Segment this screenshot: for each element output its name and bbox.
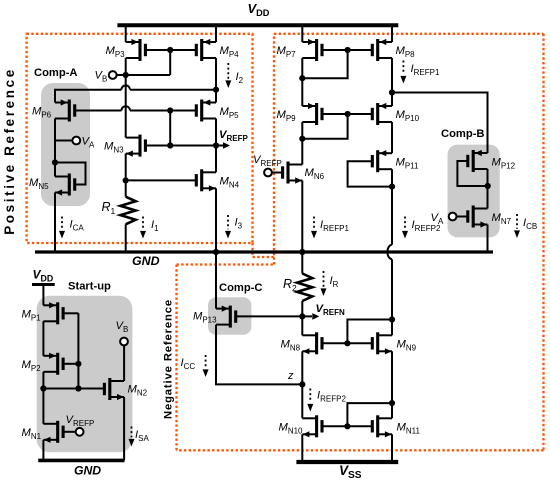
svg-text:Positive Reference: Positive Reference [2,67,17,235]
wire MN5 gate loop to drain node [55,163,86,185]
node VREFP [213,142,219,148]
wire MP5 drain down to VREFP node [215,119,217,146]
wire MP2 drain down to node [42,372,44,389]
svg-text:IREFP1: IREFP1 [320,219,349,233]
node gate line to MN3 [167,107,173,113]
transistor MP5 [196,99,216,121]
wire MN10 source down to VSS [301,434,303,462]
terminal VREFP start-up [76,428,84,436]
arrow VREFN output [302,313,319,320]
node z [299,381,305,387]
current arrow ICC [203,355,209,377]
wire MP9 gate to MP10 gate [322,113,372,115]
node MN5 gate tie [52,159,58,165]
node start-up mid right [75,385,81,391]
svg-text:MP9: MP9 [277,109,297,123]
node MP13 source at GND [213,249,219,255]
svg-text:MN4: MN4 [220,176,240,190]
transistor MP9 [302,103,322,125]
wire MP7 source to VDD [301,25,303,42]
wire node to MN2 gate [43,388,104,390]
wire MN5 drain up [54,163,56,177]
GND bar start-up [38,459,124,463]
wire MP13 drain down to z node [216,325,302,385]
wire MP3 gate to MP4 gate [146,49,197,51]
current arrow ISA [129,427,135,447]
wire MP8 source to VDD [391,25,393,42]
transistor MP12 [468,150,488,172]
wire MP2 gate tap [63,363,78,365]
transistor MN4 [196,169,216,191]
wire MP10 drain down to MP11 source [391,122,393,153]
svg-text:MN10: MN10 [279,422,304,436]
node MN10-MN11 gate tie [344,423,350,429]
node MP9 gate tie [345,111,351,117]
transistor MP11 [372,150,392,172]
VDD rail [117,23,398,27]
right reference region box [177,34,544,451]
wire MP5 source up [215,90,217,103]
transistor MN5 [55,174,75,196]
terminal VA [72,137,80,145]
node MN9 drain tie [389,316,395,322]
Comp-A shaded box [41,83,90,206]
current arrow ICA [59,217,65,239]
wire MN3 drain up to VB node [125,75,127,138]
wire MP8 drain down to IREFP1 node [391,58,393,93]
wire MP9 drain down [301,122,303,139]
svg-text:VSS: VSS [339,463,362,481]
node gate MP3-MP4 [167,47,173,53]
current arrow ICB [514,214,520,238]
svg-text:Start-up: Start-up [68,281,111,293]
wire node down to MN1 drain [42,389,44,424]
transistor MP13 [216,306,236,328]
positive reference region box [27,34,253,243]
node MP9 drain [299,136,305,142]
wire MP7 gate to MP8 gate [322,49,372,51]
node MP7 drain [299,75,305,81]
wire MN8 source down to z node [301,351,303,384]
svg-text:VDD: VDD [33,268,54,284]
wire MP6 gate to MP5 gate (with hop) [75,106,196,110]
wire MP11 gate diode tie [348,161,392,186]
wire MP6 drain down [54,119,56,163]
svg-text:I2: I2 [236,71,244,85]
node MP8 drain [389,89,395,95]
terminal VB [109,71,117,79]
wire MN9 drain up [391,320,393,336]
transistor MP1 [43,302,63,324]
resistor R1 [120,180,135,252]
svg-text:VREFP: VREFP [253,154,282,168]
wire MP4 source to VDD [215,25,217,42]
wire MP9 source up [301,78,303,106]
wire MP12 gate diode loop [457,161,487,186]
wire MN6 source down to GND line [301,181,303,253]
wire MN7 source down to GND line [487,225,489,253]
wire VB node line [117,74,171,76]
svg-text:MP11: MP11 [396,157,420,171]
svg-text:MP10: MP10 [396,109,420,123]
svg-text:MN8: MN8 [281,339,301,353]
Start-up shaded box [37,296,133,453]
svg-text:MP7: MP7 [277,45,297,59]
wire MP11 drain branch down with hop over GND [387,187,392,320]
svg-text:I3: I3 [235,217,243,231]
node MP7 gate tie [345,47,351,53]
svg-text:VB: VB [95,70,108,84]
svg-text:MN3: MN3 [104,141,124,155]
node MN3 gate line [167,142,173,148]
wire MN2 source down to GND bar [123,397,125,460]
transistor MP8 [372,39,392,61]
wire MN10 drain up to z node [301,384,303,418]
VDD bar start-up [32,283,55,286]
svg-text:IR: IR [330,275,339,289]
svg-text:ISA: ISA [135,429,149,443]
current arrow IREFP2 mid [402,217,408,239]
wire MP12 drain down [487,169,489,186]
wire MN5 source down to GND [54,193,56,253]
wire VREFP terminal to MN6 gate [272,172,283,174]
current arrow IREFP1 mid [311,217,317,239]
wire MN1 source down to GND bar [42,440,44,461]
transistor MN7 [468,206,488,228]
Comp-B shaded box [448,145,500,238]
current arrow I1 [140,217,146,239]
wire gate column start-up [77,313,79,388]
wire MN11 diode tie up [347,403,392,426]
svg-text:VREFP: VREFP [219,129,248,143]
svg-text:Comp-C: Comp-C [219,282,263,294]
svg-text:MN7: MN7 [492,212,512,226]
wire MN9 diode tie up [347,320,392,344]
terminal VA Comp-B [449,213,457,221]
arrow VREFP output [216,142,230,149]
wire MP7 drain down [301,58,303,78]
current arrow IREFP1 top [400,61,406,84]
terminal VB start-up [120,338,128,346]
svg-text:ICB: ICB [523,217,537,231]
wire MN8 drain up to VREFN node [301,316,303,335]
wire MP3 source to VDD [125,25,127,42]
svg-text:Comp-B: Comp-B [441,128,485,140]
svg-text:z: z [287,370,294,382]
wire MP1 drain to MP2 source [42,321,44,356]
GND rail positive reference [35,250,493,253]
wire MP10 source up [391,93,393,107]
svg-text:VREFN: VREFN [316,303,345,317]
wire MN4 gate to R1 top node [126,179,197,181]
svg-text:MP3: MP3 [106,45,126,59]
wire VA tap [55,140,72,142]
current arrow I3 [225,215,231,239]
transistor MN6 [283,162,303,184]
wire gate node down to VB line [169,50,171,75]
wire MN2 drain up to VB terminal [123,345,125,381]
node MP4 drain / MP5 source [213,87,219,93]
wire MN3 gate to VREFP node [146,145,217,147]
node MN9 source / MN11 drain [389,400,395,406]
svg-text:MN9: MN9 [397,339,417,353]
VSS rail [296,460,398,464]
transistor MP2 [43,353,63,375]
transistor MP7 [302,39,322,61]
wire MN7 drain up [487,186,489,209]
node start-up mid left [40,385,46,391]
wire MP7 diode tie down [302,50,347,78]
wire MN9 source down [391,351,393,403]
wire MN4 source down to GND [215,188,217,252]
wire MP13 source up to GND line [215,252,217,309]
resistor R2 [297,252,312,316]
wire MP8 drain to Comp-B [392,93,488,154]
node MP11 drain [389,184,395,190]
wire MN10 gate to MN11 gate [322,425,372,427]
terminal VREFP input [264,169,272,177]
svg-text:ICA: ICA [70,219,85,233]
wire MN3 source down to R1 top [125,154,127,181]
svg-text:VA: VA [82,136,95,150]
svg-text:Comp-A: Comp-A [34,67,78,79]
current arrow IREFP2 bottom [307,389,313,412]
node MP2 gate [75,361,81,367]
current arrow I2 [225,63,231,88]
svg-text:MP5: MP5 [220,106,240,120]
transistor MN1 [43,421,63,443]
transistor MP4 [196,39,216,61]
wire VDD to MP1 source [42,285,44,306]
transistor MN3 [126,135,146,157]
transistor MN2 [104,378,124,400]
svg-text:R1: R1 [102,200,116,216]
svg-text:Negative Reference: Negative Reference [163,299,175,419]
node VB [123,72,129,78]
node MN8-MN9 gate tie [344,340,350,346]
wire MN6 drain up to MP9 drain node [301,139,303,165]
svg-text:GND: GND [132,254,160,268]
wire MN11 source down to VSS [391,434,393,462]
node Comp-B mid [485,183,491,189]
wire gate node down to MN3 gate line [169,111,171,146]
svg-text:VDD: VDD [248,1,270,18]
svg-text:I1: I1 [151,219,159,233]
svg-text:MN6: MN6 [305,167,325,181]
current arrow IR [321,271,327,296]
transistor MP10 [372,103,392,125]
wire MN4 drain up to VREFP node [215,146,217,173]
node MN6 source at GND [299,249,305,255]
transistor MP6 [55,99,75,121]
node R1 top [123,177,129,183]
wire MP4 drain down to I2 node [215,58,217,90]
transistor MN9 [372,332,392,354]
svg-text:R2: R2 [283,277,297,293]
node VREFN [299,313,305,319]
svg-text:MN11: MN11 [397,422,421,436]
svg-text:MP8: MP8 [396,45,416,59]
wire MN1 gate to VREFP terminal [63,431,75,433]
wire MP6 source up and right to I2 node (with hop) [55,85,216,102]
transistor MN8 [302,332,322,354]
wire MP1 gate down to MP2 gate [63,312,78,314]
wire MP9 diode tie down [302,114,347,139]
transistor MN10 [302,415,322,437]
svg-text:VA: VA [431,212,444,226]
svg-text:MP4: MP4 [220,45,240,59]
transistor MP3 [126,39,146,61]
svg-text:IREFP2: IREFP2 [317,390,346,404]
svg-text:ICC: ICC [181,357,196,371]
wire MP3 drain down to VB node [125,58,127,75]
wire MP13 gate to VREFN node [236,315,302,317]
transistor MN11 [372,415,392,437]
Comp-C shaded box [208,297,251,334]
svg-text:GND: GND [74,464,101,478]
wire MN8 gate to MN9 gate [322,342,372,344]
svg-text:IREFP1: IREFP1 [411,63,440,77]
wire VA to MN7 gate [457,216,468,218]
wire MP11 drain down [391,169,393,186]
wire MN11 drain up [391,403,393,418]
svg-text:MP12: MP12 [492,157,516,171]
svg-text:MN2: MN2 [128,384,148,398]
